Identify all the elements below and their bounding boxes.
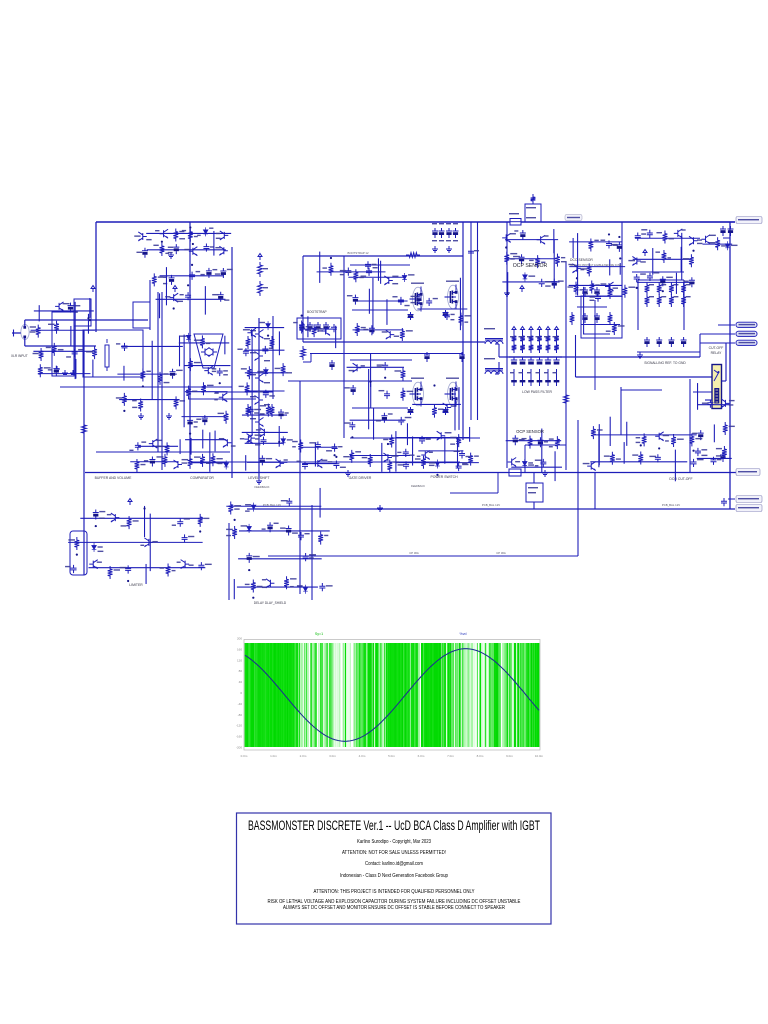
capacitor C14 [345, 267, 351, 275]
wire y392 [215, 391, 273, 393]
wire [598, 424, 600, 465]
resistor RL4 [270, 404, 275, 417]
transistor Q2 [160, 229, 169, 238]
resistor Rd3 [608, 312, 613, 325]
wire relay feed2 [693, 391, 713, 393]
wire [165, 267, 167, 305]
node junction [76, 554, 78, 556]
resistor Rd1 [570, 312, 575, 325]
capacitor C84 [177, 519, 183, 527]
label [293, 322, 298, 323]
wire [224, 336, 226, 355]
label [464, 321, 468, 322]
label [697, 459, 704, 460]
capacitor C30 [53, 366, 59, 376]
resistor R16 sig2 [657, 294, 662, 307]
resistor R101 [284, 576, 289, 589]
wire ocp vert x525 [524, 445, 526, 472]
capacitor C34 [189, 272, 195, 280]
capacitor C5 lpf2 [545, 357, 551, 383]
label [429, 452, 433, 453]
capacitor C40 [187, 417, 193, 427]
label [226, 535, 231, 536]
label [340, 274, 344, 275]
label [451, 405, 457, 406]
label [224, 299, 229, 300]
node junction [87, 317, 89, 319]
wire [182, 416, 226, 418]
wire [368, 369, 370, 429]
resistor R24 [329, 263, 334, 276]
wire [454, 387, 456, 430]
node junction [662, 290, 664, 292]
label [99, 517, 104, 518]
wire [183, 335, 185, 428]
capacitor C12 [173, 244, 179, 254]
capacitor C86 [71, 565, 77, 573]
wire [350, 419, 406, 421]
resistor R39 [39, 348, 44, 361]
label [48, 369, 52, 370]
label [514, 230, 518, 231]
wire [92, 360, 94, 377]
label [155, 230, 159, 231]
svg-text:DELAY DLAY_SHIELD: DELAY DLAY_SHIELD [254, 601, 287, 605]
svg-text:200: 200 [237, 637, 242, 641]
label [292, 441, 298, 442]
label [649, 456, 656, 457]
wire dco rail1 [577, 306, 607, 308]
svg-text:SIGNALLING REF. TO GND: SIGNALLING REF. TO GND [644, 361, 686, 365]
capacitor C2 lpf2 [519, 357, 525, 383]
wire [179, 439, 181, 454]
svg-text:6.0m: 6.0m [418, 754, 425, 758]
wire [278, 426, 280, 447]
transistor Q24 [353, 363, 362, 372]
label [535, 465, 539, 466]
wire [469, 427, 471, 442]
wire vertical x477.5 [477, 222, 479, 420]
capacitor C21 [616, 242, 622, 252]
label [132, 400, 137, 401]
resistor R-ls1 [301, 346, 306, 360]
transistor Q6 [502, 233, 511, 242]
resistor R23 [159, 243, 164, 256]
label [241, 525, 248, 526]
resistor R54 [247, 366, 252, 379]
diode D14 [247, 524, 252, 533]
label [701, 449, 707, 450]
resistor R58 [299, 320, 304, 333]
node junction [161, 241, 163, 243]
label [636, 442, 641, 443]
capacitor C6 lpf2 [553, 357, 559, 383]
label [309, 557, 314, 558]
mosfet M2 [448, 285, 459, 309]
capacitor C65 [655, 454, 661, 462]
label [438, 409, 444, 410]
label [692, 433, 697, 434]
node junction [619, 257, 621, 259]
capacitor C59 [398, 417, 404, 425]
label [510, 258, 514, 259]
label [200, 274, 204, 275]
resistor R-x566 [564, 392, 569, 406]
svg-text:CUT-OFF: CUT-OFF [709, 346, 724, 350]
diode D9 [435, 459, 440, 468]
label [324, 535, 328, 536]
node junction [618, 236, 620, 238]
wire [160, 275, 224, 277]
svg-text:PCB_BAL 12V: PCB_BAL 12V [482, 503, 500, 507]
transistor Q17 [219, 393, 228, 402]
svg-text:GATE DRIVER: GATE DRIVER [349, 476, 372, 480]
resistor R49 [200, 335, 205, 348]
node junction [636, 287, 638, 289]
capacitor Cd2 [594, 287, 600, 297]
label [287, 439, 293, 440]
ground sig [637, 352, 643, 358]
node junction [191, 264, 193, 266]
label [580, 289, 584, 290]
resistor R2 lpfb [512, 342, 517, 353]
label [338, 446, 342, 447]
resistor R43 [140, 368, 145, 381]
resistor R14 sig2 [645, 294, 650, 307]
resistor RL3 [246, 404, 251, 417]
label [98, 546, 103, 547]
svg-text:BASSMONSTER DISCRETE Ver.1 --: BASSMONSTER DISCRETE Ver.1 -- UcD BCA Cl… [248, 818, 540, 833]
label [618, 325, 625, 326]
wire vertical x621 [620, 387, 622, 435]
label [262, 528, 266, 529]
wire left vertical bus [95, 222, 97, 332]
capacitor C-rb [720, 452, 726, 462]
resistor R77 [555, 436, 560, 449]
label [275, 368, 281, 369]
svg-text:7.0m: 7.0m [447, 754, 454, 758]
label [146, 371, 150, 372]
label [255, 444, 260, 445]
transistor Q11 [689, 236, 698, 245]
resistor R30 [574, 282, 579, 295]
resistor R57 [266, 404, 271, 417]
resistor R72 [671, 434, 676, 447]
capacitor C15 [365, 261, 371, 269]
wire [239, 530, 330, 532]
label [285, 412, 289, 413]
label [216, 233, 220, 234]
wire [354, 300, 408, 302]
wire ocp rail y445 [525, 444, 566, 446]
node junction [384, 377, 386, 379]
label [363, 329, 368, 330]
label [194, 236, 198, 237]
capacitor C95 [319, 583, 325, 591]
label [234, 505, 241, 506]
resistor R44 [158, 372, 163, 385]
svg-text:-40: -40 [238, 702, 243, 706]
label [172, 570, 176, 571]
wire [350, 455, 410, 457]
wire [381, 443, 383, 472]
transistor Q35 [276, 459, 285, 468]
diode D12 [92, 543, 97, 552]
diode D15 [303, 585, 308, 594]
resistor R93 [198, 514, 203, 527]
wire dco block top [621, 389, 662, 391]
diode D13 [251, 503, 256, 512]
capacitor C33 [169, 275, 175, 285]
dco sensor box [581, 296, 622, 338]
wire [214, 431, 216, 452]
label [132, 407, 137, 408]
transistor QL5 [255, 418, 264, 427]
wire sig box left [637, 280, 639, 330]
resistor R4 lpfb [520, 342, 525, 353]
node junction [189, 433, 191, 435]
label [433, 298, 438, 299]
label [180, 400, 185, 401]
label [231, 445, 236, 446]
wire [245, 390, 285, 392]
wire [633, 258, 690, 260]
label [392, 283, 398, 284]
transistor Q22 [384, 276, 393, 285]
transistor Q14 [55, 302, 64, 311]
label [165, 296, 170, 297]
svg-text:ATTENTION: THIS PROJECT IS INT: ATTENTION: THIS PROJECT IS INTENDED FOR … [314, 889, 476, 895]
buffer main box [83, 330, 143, 377]
resistor RL1 [246, 336, 251, 349]
wire sig box top [638, 279, 684, 281]
label [241, 368, 247, 369]
label [134, 235, 140, 236]
label [182, 459, 188, 460]
capacitor C75 [260, 437, 266, 445]
resistor R38 [54, 321, 59, 334]
label [58, 349, 64, 350]
node junction [219, 382, 221, 384]
transistor Q33 [223, 438, 232, 447]
label [218, 463, 223, 464]
label [164, 373, 169, 374]
resistor R1 lpf [512, 333, 517, 344]
label [665, 440, 669, 441]
resistor R71 [642, 433, 647, 446]
label [636, 437, 641, 438]
wire [505, 239, 558, 241]
label [78, 349, 83, 350]
wire [179, 342, 229, 344]
wire vertical x232 [231, 247, 233, 478]
label [640, 261, 645, 262]
wire [553, 229, 555, 253]
label [223, 370, 228, 371]
node junction [369, 381, 371, 383]
resistor R32 [623, 285, 628, 298]
resistor R56 [245, 382, 250, 395]
label [215, 273, 220, 274]
buffer box upper-right [133, 302, 150, 328]
svg-text:Indonesian - Class D Next Gene: Indonesian - Class D Next Generation Fac… [340, 873, 448, 879]
label [182, 230, 186, 231]
label [107, 514, 111, 515]
wire vertical x273 [272, 316, 274, 399]
svg-text:ATTENTION: NOT FOR SALE UNLESS: ATTENTION: NOT FOR SALE UNLESS PERMITTED… [342, 850, 446, 856]
wire [209, 432, 211, 471]
label [269, 395, 274, 396]
wire [675, 273, 677, 294]
label [212, 269, 217, 270]
resistor R-col1 [258, 262, 263, 277]
label [188, 536, 194, 537]
label [209, 227, 213, 228]
transistor Q25 [443, 403, 452, 412]
label [214, 399, 218, 400]
svg-text:DCO SENSOR: DCO SENSOR [570, 258, 593, 262]
node junction [95, 525, 97, 527]
mosfet M1 [413, 287, 424, 311]
wire rail y381 [288, 380, 412, 382]
label shunt [526, 207, 536, 208]
wire [377, 258, 379, 281]
resistor R15 sig [657, 282, 662, 295]
label lpf2 [519, 372, 524, 373]
label [192, 391, 197, 392]
capacitor C-ls [329, 360, 335, 370]
resistor R84 [135, 459, 140, 472]
svg-text:COMPARATOR: COMPARATOR [190, 476, 214, 480]
capacitor C71 [403, 461, 409, 469]
label [114, 569, 120, 570]
wire vertical x463 [462, 222, 464, 440]
transistor Q5 [219, 246, 228, 255]
label [172, 525, 176, 526]
resistor R96 [166, 564, 171, 577]
capacitor C44 [263, 390, 269, 398]
resistor R92 [127, 516, 132, 529]
capacitor C42 [243, 348, 249, 356]
wire gate upper rail y265 [350, 264, 410, 266]
diode D6 [264, 367, 269, 376]
capacitor C60 [595, 294, 601, 302]
resistor R9 lpf [546, 333, 551, 344]
label [179, 231, 184, 232]
label [144, 460, 148, 461]
label [345, 387, 350, 388]
resistor R3 lpf [520, 333, 525, 344]
capacitor C83 [93, 510, 99, 520]
wire lpf rail y357b [509, 356, 562, 358]
wire [145, 564, 147, 584]
wire [213, 231, 215, 256]
inductor L2 [485, 371, 503, 374]
wire long y462 [190, 461, 460, 463]
label [223, 374, 228, 375]
resistor R37 [36, 325, 41, 338]
transistor Q15 [170, 293, 179, 302]
label [405, 417, 412, 418]
wire [34, 310, 94, 312]
ground bank1 [432, 246, 438, 252]
capacitor C4 lpf2 [536, 357, 542, 383]
label [44, 367, 51, 368]
resistor R97 [228, 502, 233, 515]
label [371, 264, 376, 265]
label [709, 235, 716, 236]
label [99, 511, 105, 512]
wire [372, 278, 374, 334]
bootstrap box [297, 318, 341, 339]
wire [681, 233, 683, 281]
label [179, 238, 185, 239]
wire [245, 442, 284, 444]
label [716, 448, 722, 449]
diode D4 [186, 333, 191, 342]
label [408, 274, 414, 275]
label [601, 283, 607, 284]
capacitor C-hb2 [459, 352, 465, 362]
capacitor C39 [217, 368, 223, 376]
label [97, 561, 102, 562]
label [181, 462, 187, 463]
wire delay box left [228, 523, 230, 600]
wire [417, 308, 467, 310]
wire [396, 437, 469, 439]
wire [406, 423, 408, 445]
wire [697, 383, 699, 410]
capacitor C54 [382, 362, 388, 370]
label [474, 455, 479, 456]
wire [572, 238, 574, 258]
capacitor C23 [647, 230, 653, 238]
label [697, 239, 702, 240]
label [180, 335, 186, 336]
wire [319, 252, 321, 283]
chart pwm stripes [245, 643, 539, 747]
wire vertical x595 [594, 473, 596, 509]
svg-text:120: 120 [237, 658, 242, 662]
wire [121, 345, 183, 347]
svg-text:LIMITER: LIMITER [129, 583, 143, 587]
wire vertical x600 [594, 300, 596, 390]
capacitor C51 [416, 294, 422, 304]
ground [138, 413, 144, 419]
label [184, 518, 190, 519]
svg-text:BUFFER AND VOLUME: BUFFER AND VOLUME [95, 476, 132, 480]
svg-text:ALWAYS SET DC OFFSET AND MONIT: ALWAYS SET DC OFFSET AND MONITOR ENSURE … [283, 905, 505, 911]
label [568, 264, 573, 265]
label [683, 281, 688, 282]
label [206, 343, 210, 344]
transistor Q30 [437, 431, 446, 440]
capacitor C38 [218, 292, 224, 302]
label L1 value [484, 328, 495, 329]
label [597, 429, 603, 430]
power flag lpf [547, 330, 549, 334]
capacitor C64 [710, 457, 716, 465]
capacitor C49 [398, 297, 404, 305]
label [260, 405, 266, 406]
title text [248, 818, 540, 911]
capacitor C57 [349, 422, 355, 430]
label [721, 245, 727, 246]
label [535, 460, 542, 461]
label [410, 296, 416, 297]
capacitor Cb4 [323, 322, 329, 332]
node junction [252, 597, 254, 599]
